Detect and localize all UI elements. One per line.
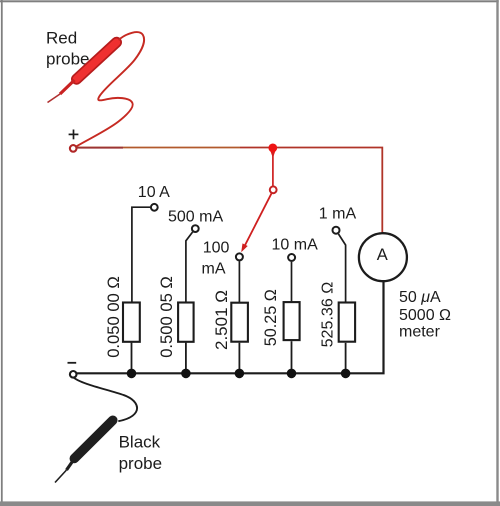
junction dot R5 [341,369,351,379]
black probe P2 [55,420,113,482]
wire 10 mA tap to R4 [291,262,293,301]
red probe P1 [48,42,117,102]
junction dot R1 [127,369,137,379]
svg-text:2.501 Ω: 2.501 Ω [212,290,231,350]
svg-text:probe: probe [46,50,89,69]
wire R3 bottom [238,343,240,374]
svg-text:525.36 Ω: 525.36 Ω [319,282,337,348]
svg-text:Red: Red [46,28,77,47]
black probe wire [73,377,137,421]
junction dot R3 [235,369,245,379]
svg-text:A: A [377,246,388,264]
wire 500 mA tap to R2 [186,232,193,303]
svg-text:500 mA: 500 mA [168,208,223,225]
meter M1 [359,233,407,281]
svg-text:probe: probe [119,454,162,473]
wire R2 bottom [185,343,187,374]
junction dot R2 [181,369,191,379]
wire 10 A tap to R1 [132,207,150,302]
resistor R3 [231,303,248,342]
resistor R2 [178,303,194,342]
wire R4 bottom [291,341,293,374]
svg-text:100: 100 [203,239,230,256]
wire R1 bottom [131,343,133,374]
tap terminal 500 mA [192,225,199,232]
switch pivot circle [270,186,277,193]
minus terminal [70,371,77,378]
label Red probe [46,28,89,68]
minus sign [68,362,77,364]
switch wiper arrow [241,193,271,252]
svg-text:50 μA: 50 μA [399,289,441,306]
svg-text:0.050 00 Ω: 0.050 00 Ω [104,276,123,358]
wire R5 bottom [345,343,347,374]
label 50 uA 5000 ohm meter [399,289,451,340]
resistor R4 [284,302,300,340]
svg-text:50.25 Ω: 50.25 Ω [262,289,280,346]
label 100 mA [202,239,230,277]
wire 100 mA tap to R3 [238,261,240,302]
tap terminal 100 mA [236,253,243,260]
svg-text:meter: meter [399,323,441,340]
plus sign [69,130,79,140]
bottom bus wire from meter to minus terminal [77,282,384,374]
svg-text:10 A: 10 A [138,184,170,201]
junction node red dot [268,144,277,159]
svg-text:0.500 05 Ω: 0.500 05 Ω [157,276,176,358]
svg-text:10 mA: 10 mA [272,236,319,253]
label Black probe [119,433,162,474]
svg-text:Black: Black [119,433,161,452]
junction dot R4 [287,369,297,379]
wire 1 mA tap to R5 [338,234,345,302]
+ terminal [70,145,77,152]
tap terminal 10 A [151,204,158,211]
tap terminal 1 mA [333,227,340,234]
switch arm wire [272,152,274,186]
red probe wire [76,32,144,146]
svg-text:1 mA: 1 mA [319,206,357,223]
resistor R5 [339,303,355,342]
svg-text:mA: mA [202,261,226,278]
tap terminal 10 mA [288,254,295,261]
red bus wire from + to meter [77,148,383,234]
resistor R1 [123,303,140,342]
svg-text:5000 Ω: 5000 Ω [399,307,451,324]
